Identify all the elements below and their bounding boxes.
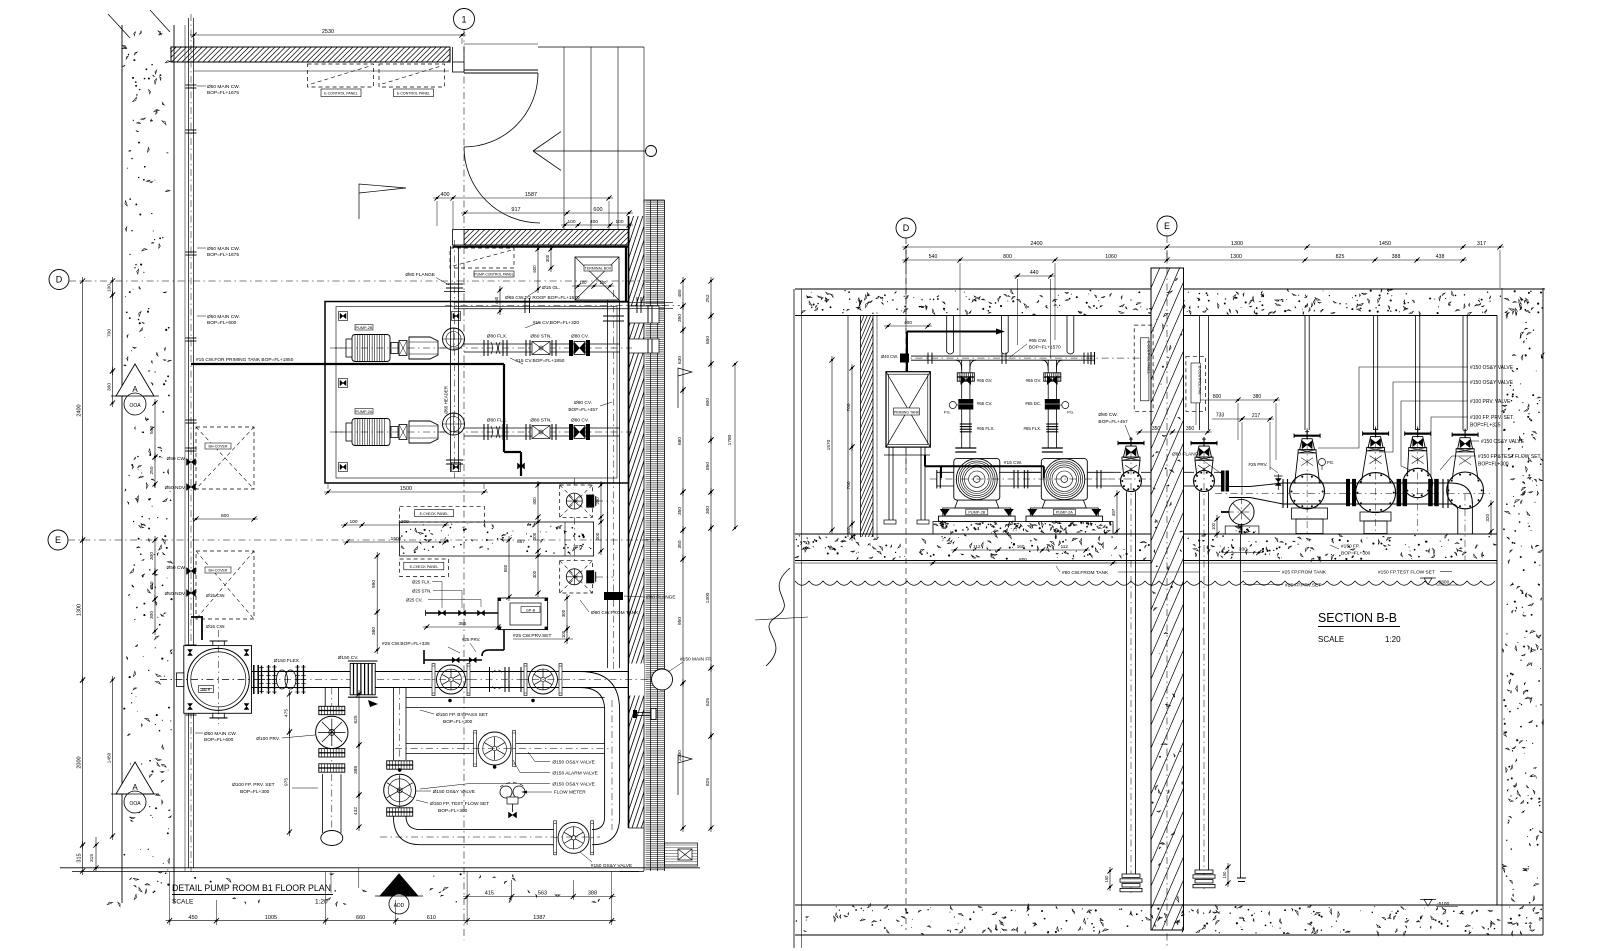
svg-text:BOP=FL+300: BOP=FL+300 [240,789,270,795]
svg-text:200: 200 [595,497,600,505]
pipe flange [186,644,197,646]
svg-text:#25 PRV.: #25 PRV. [462,637,480,642]
grid axis E sec [1157,216,1177,236]
flag marker 2 [678,755,692,795]
priming tank [886,372,930,447]
svg-text:Ø80 FLANGE: Ø80 FLANGE [405,272,435,278]
svg-text:388: 388 [1392,254,1401,260]
svg-text:#65 GV.: #65 GV. [1026,378,1042,383]
vertical right pipe [604,710,606,817]
svg-text:150: 150 [1104,875,1109,883]
dim 1570 [831,356,833,534]
svg-text:250: 250 [149,466,155,474]
left concrete wall [121,25,123,903]
sec valve assy 3 prv [1405,433,1431,435]
sec dim row1 [902,246,1504,248]
svg-text:Ø80 FLX.: Ø80 FLX. [487,334,508,340]
svg-text:400: 400 [590,219,598,225]
svg-text:800: 800 [1003,254,1012,260]
valve stack 1 [961,360,963,448]
ceiling pipe sleeve [946,316,948,353]
dim 800 380 [1192,399,1280,401]
svg-text:380: 380 [1253,394,1262,400]
svg-text:1005: 1005 [265,915,277,921]
svg-text:550: 550 [503,564,508,572]
svg-text:300: 300 [545,254,550,262]
svg-text:SCALE: SCALE [1318,635,1344,644]
level -5100 [1424,900,1432,907]
svg-text:200: 200 [595,532,600,540]
door arrow [533,132,561,151]
svg-text:480: 480 [677,289,683,297]
grid axis D sec [896,218,916,238]
svg-text:E: E [55,535,61,545]
svg-text:112: 112 [1061,544,1069,549]
svg-text:2530: 2530 [322,29,334,35]
plan flag pennant [359,184,406,219]
svg-text:E-CHECK PANEL: E-CHECK PANEL [410,565,439,569]
revision triangle A-OOA 1 [116,364,154,396]
svg-text:BOP=FL+1570: BOP=FL+1570 [1029,345,1061,351]
column marker m5 [452,312,461,321]
dim 100 drain [1216,515,1218,538]
svg-text:Ø50 MAIN CW.: Ø50 MAIN CW. [207,314,240,320]
pipe 50 CW riser [188,18,190,868]
sec bottom slab [795,904,1543,906]
svg-text:#65 FLX.: #65 FLX. [977,426,995,431]
svg-text:FLOW METER: FLOW METER [554,790,587,796]
pg gauge [1319,459,1326,466]
svg-text:Ø80 CV.: Ø80 CV. [571,334,589,340]
tank connection box 1 [560,485,593,517]
svg-text:E-CONTROL PAN: E-CONTROL PAN [1198,366,1202,395]
svg-text:450: 450 [188,915,197,921]
sec ceiling slab [795,288,1545,290]
dim 400 1587 [433,197,613,199]
revision triangle A-ADD [380,874,418,896]
svg-text:1587: 1587 [525,192,537,198]
svg-text:#15 CW.FOR PRIMING TANK BOP=FL: #15 CW.FOR PRIMING TANK BOP=FL+1850 [196,357,294,363]
sec dim row3 [1014,275,1055,277]
dim row mid [463,896,615,898]
svg-text:Ø150 CV.: Ø150 CV. [338,655,359,661]
dim 100 400 100 [561,224,633,226]
valve 50 NDV b [187,590,196,597]
svg-text:200: 200 [532,532,537,540]
svg-text:680: 680 [677,437,683,445]
riser 4 [1462,316,1464,431]
svg-text:E-CHECK PANEL: E-CHECK PANEL [420,512,449,516]
svg-text:100: 100 [561,630,566,638]
pump flange circle 1 [443,328,465,350]
svg-text:300: 300 [149,611,155,619]
svg-text:#15 CV.BOP=FL+320: #15 CV.BOP=FL+320 [533,320,580,326]
dim 733 217 [1238,418,1274,420]
svg-text:PUMP-2A: PUMP-2A [356,410,373,414]
svg-text:Ø25 STN.: Ø25 STN. [412,589,432,594]
drain pad [1225,526,1259,534]
tank conn pipes [573,518,575,561]
wall bottom lines [629,827,645,829]
svg-text:1:20: 1:20 [1385,635,1401,644]
suction flange plate [184,646,252,714]
svg-text:432: 432 [353,807,359,815]
drop pipe 2 end [1195,870,1213,873]
tank connection box 2 [560,561,593,593]
svg-text:1387: 1387 [533,915,545,921]
svg-text:PUMP-2B: PUMP-2B [968,511,985,515]
svg-text:E-CONTROL PANEL: E-CONTROL PANEL [1147,341,1151,374]
pump section P-2B [956,459,997,500]
svg-text:BOP=FL+600: BOP=FL+600 [204,737,234,743]
svg-text:917: 917 [511,207,520,213]
svg-text:PUMP-CONTROL PANEL: PUMP-CONTROL PANEL [474,273,513,277]
wall sleeve 2 [629,339,659,353]
ceiling pipe sleeve [1000,316,1002,353]
svg-text:E-CONTROL PANEL: E-CONTROL PANEL [397,92,431,96]
alarm valve 150 [478,732,511,765]
door swing arc 2 [464,147,540,223]
pump section P-2A [1044,459,1085,500]
svg-text:438: 438 [1436,254,1445,260]
E-check panel 2 [400,559,449,576]
flag marker 1 [678,368,692,408]
svg-text:540: 540 [929,254,938,260]
bottom manifold pipe [420,829,556,831]
svg-text:320: 320 [1485,513,1490,521]
svg-text:Ø15 CW.: Ø15 CW. [206,624,225,630]
dim 300 600 450 [550,245,552,272]
svg-text:Ø50 MAIN CW.: Ø50 MAIN CW. [204,731,237,737]
priming line 15CW [191,363,504,365]
interior wall [464,230,629,246]
pipe flange [186,337,197,339]
svg-text:1450: 1450 [106,752,112,763]
svg-text:388: 388 [353,766,359,774]
pump flange circle 2 [443,413,465,435]
bypass pipe [406,697,605,699]
butterfly valve 1 [437,665,466,694]
priming bold pipe [907,331,996,333]
sec wall strip [847,316,849,538]
grid axis D [49,270,69,290]
top wall dim 2530 [190,34,466,36]
svg-text:SECTION B-B: SECTION B-B [1318,611,1397,625]
prv flange bottom [319,749,345,753]
pipe flange [186,419,197,421]
grid axis 1 [454,9,475,30]
dim line left bottom [95,837,97,871]
valve centerlines [1306,428,1308,534]
sec manifold pipe [911,355,1094,357]
svg-text:BH-COVER: BH-COVER [209,569,228,573]
valve 50 CW b [187,568,196,575]
wall underside bold [453,246,629,248]
svg-text:Ø50 MAIN CW.: Ø50 MAIN CW. [207,246,240,252]
drop pipe 1 [1126,492,1128,875]
sec valve assy 2 alarm [1363,433,1389,435]
svg-text:#15 CW.: #15 CW. [1004,460,1022,466]
dim ext lines sec [959,263,961,356]
svg-text:2000: 2000 [76,756,82,768]
manifold flange [1083,353,1085,365]
svg-text:1300: 1300 [1230,254,1242,260]
reducer [1229,486,1250,488]
svg-text:400: 400 [440,192,449,198]
svg-text:OOA: OOA [129,801,141,807]
drain elbow circle [1229,499,1254,524]
svg-text:Ø80 CW.FROM TANK: Ø80 CW.FROM TANK [591,610,639,616]
svg-text:355: 355 [458,621,466,627]
svg-text:Ø50 MAIN CW.: Ø50 MAIN CW. [207,84,240,90]
svg-text:100: 100 [580,280,588,285]
svg-text:#150 MAIN FP.: #150 MAIN FP. [680,657,712,663]
right wall hatch [628,216,630,828]
svg-text:100: 100 [567,219,575,225]
dim 917 600 [461,212,633,214]
pump P-2B plan [352,335,390,362]
valve 150 OSY-2 [558,822,589,853]
drop pipe 2 [1199,492,1201,871]
svg-text:PG.: PG. [1327,460,1334,465]
svg-text:1: 1 [461,15,466,25]
svg-text:625: 625 [353,715,359,723]
E-control panel 1 [308,64,374,87]
valve2 outlet flange [1221,471,1225,492]
branch1 drop pipe [322,774,324,833]
svg-text:975: 975 [283,778,289,786]
fp drop pipe thin [1240,534,1242,878]
svg-text:#150 OS&Y VALVE: #150 OS&Y VALVE [1470,365,1514,371]
grid axis E [48,530,68,550]
svg-text:497: 497 [1111,508,1116,516]
svg-text:TERMINAL BOX: TERMINAL BOX [585,267,612,271]
svg-text:100: 100 [846,526,851,534]
sec E panel left [1134,325,1153,411]
sec main pipe [1283,482,1451,484]
svg-text:600: 600 [221,513,229,519]
svg-text:415: 415 [485,891,494,897]
svg-text:300: 300 [106,383,112,391]
branch1 pipe [324,688,326,708]
manifold flange [1001,353,1003,365]
valve 100 PRV [316,716,348,748]
svg-text:1500: 1500 [400,486,412,492]
butterfly valve 2 [529,665,558,694]
svg-text:1060: 1060 [1105,254,1117,260]
main fp pipe [252,671,629,673]
svg-text:BOP=FL+1675: BOP=FL+1675 [207,252,239,258]
svg-text:PG.: PG. [1067,410,1074,415]
svg-text:160: 160 [1017,544,1025,549]
svg-text:2400: 2400 [1030,241,1042,247]
left dim col outer [82,277,84,544]
osy flange top [387,761,413,765]
valve2 ceiling riser [1199,316,1201,431]
dim col 625 388 [358,690,360,749]
pump control panel box [450,248,514,268]
svg-text:D: D [56,275,63,285]
ceiling pipe sleeve [1066,316,1068,353]
top wall [171,47,450,62]
svg-text:BOP=FL+457: BOP=FL+457 [568,407,598,413]
valve 50 CW [187,459,196,466]
column marker m2 [339,379,348,388]
svg-text:BOP=FL+600: BOP=FL+600 [207,320,237,326]
svg-text:DETAIL PUMP ROOM B1 FLOOR: DETAIL PUMP ROOM B1 FLOOR PLAN [172,883,331,894]
right dim col 2 [710,277,712,320]
svg-text:400: 400 [904,320,912,326]
svg-text:BOP=FL+300: BOP=FL+300 [438,808,468,814]
svg-text:#150 FP.&TEST FLOW SET,: #150 FP.&TEST FLOW SET, [1478,454,1541,460]
plan bottom wall line [60,867,700,869]
main fp wall circle [652,669,673,690]
manifold tee elbows [956,360,962,370]
svg-text:Ø15 CW.: Ø15 CW. [206,593,225,599]
riser 3 [1415,316,1417,431]
svg-text:Ø150 OS&Y VALVE: Ø150 OS&Y VALVE [433,789,475,795]
svg-text:#100 PRV. VALVE: #100 PRV. VALVE [1470,399,1511,405]
trench dims [341,524,449,526]
svg-text:350: 350 [677,314,683,322]
E-control panel 2 [379,64,445,87]
svg-text:#65 DC.: #65 DC. [1025,401,1041,406]
manifold flange [927,353,929,365]
dim 350 350 [1136,431,1212,433]
svg-text:BOP=FL+457: BOP=FL+457 [1098,419,1128,425]
wall bolt detail [636,712,655,714]
svg-text:Ø150 FP. TEST FLOW SET: Ø150 FP. TEST FLOW SET [430,801,489,807]
svg-text:350: 350 [1186,426,1195,432]
wall underside line [194,70,449,72]
spool dashed [493,670,503,673]
svg-text:Ø150 OS&Y VALVE: Ø150 OS&Y VALVE [552,760,594,766]
svg-text:350: 350 [1152,426,1161,432]
main tee elbow down [580,672,620,711]
header riser pipe [450,246,452,472]
pipe flange e [1442,479,1444,508]
svg-text:#150 OS&Y VALVE: #150 OS&Y VALVE [1481,439,1525,445]
svg-text:Ø40 CW.: Ø40 CW. [881,354,898,359]
sec dim row2 [902,259,1467,261]
svg-text:Ø50 CW.: Ø50 CW. [167,456,186,462]
cable trench [400,522,594,556]
svg-text:-5100: -5100 [1437,901,1450,907]
dim 600 bh [192,518,258,520]
svg-text:700: 700 [846,403,852,411]
svg-text:600: 600 [593,207,602,213]
dims right tank boxes [600,481,602,521]
svg-text:450: 450 [494,296,499,304]
dim 355 [423,626,502,628]
tank stand [888,447,890,524]
svg-text:#25 CW.PRV.SET: #25 CW.PRV.SET [513,633,551,639]
pipe flange [186,251,197,253]
column marker m1 [339,312,348,321]
svg-text:BOP=FL+300: BOP=FL+300 [443,719,473,725]
left dim col sub [154,399,156,461]
pipe flange a [1282,479,1284,508]
svg-text:Ø100 FP. PRV. SET: Ø100 FP. PRV. SET [232,782,275,788]
svg-text:Ø150 FLEX.: Ø150 FLEX. [274,658,300,664]
svg-text:2400: 2400 [76,404,82,416]
leader circle [646,146,657,157]
pump discharge stub [1087,471,1114,473]
dim row bottom [166,920,616,922]
svg-text:#25 PRV.: #25 PRV. [1248,462,1267,467]
svg-text:Ø80 STN.: Ø80 STN. [530,418,551,424]
svg-text:100: 100 [1211,522,1216,530]
svg-text:100: 100 [106,284,112,292]
dim 150 pipe1 [1109,867,1111,891]
E axis over column [1166,268,1168,930]
pump room enclosure [325,302,629,484]
svg-text:#15 CV.BOP=FL+1850: #15 CV.BOP=FL+1850 [516,358,565,364]
svg-text:PUMP-2A: PUMP-2A [1056,511,1073,515]
svg-text:315: 315 [76,853,82,862]
svg-text:Ø25 FLX.: Ø25 FLX. [412,580,431,585]
valve supports [1292,508,1328,519]
svg-text:OOA: OOA [129,403,141,409]
column marker m3 [339,463,348,472]
pipe 25 down [503,630,505,650]
break line squiggle [766,568,790,666]
svg-text:650: 650 [705,336,711,344]
15cw drain elbow [191,616,203,618]
svg-text:380: 380 [371,627,377,635]
svg-text:SCALE: SCALE [172,899,194,906]
riser 1 [1304,316,1306,431]
level -2800 [1424,578,1432,585]
svg-text:1300: 1300 [1231,241,1243,247]
dim 112 160 112 [951,549,1090,551]
svg-text:700: 700 [106,329,112,337]
valve 50 NDV [187,484,196,491]
svg-text:Ø15 GL.: Ø15 GL. [542,285,560,291]
discharge piping pump2 [464,427,620,429]
svg-text:Ø100 PRV.: Ø100 PRV. [256,736,280,742]
pipe flange d dark [1428,479,1433,506]
svg-text:800: 800 [705,398,711,406]
svg-text:300: 300 [1239,547,1247,553]
svg-text:625: 625 [705,698,711,706]
branch2 pipe [392,688,394,761]
dim 1500 room [324,491,488,493]
svg-text:Ø50 CW.: Ø50 CW. [167,565,186,571]
sec column [1151,268,1184,930]
sec right wall [1496,316,1498,906]
pipe flange [186,129,197,131]
svg-text:Ø150 OS&Y VALVE: Ø150 OS&Y VALVE [552,782,594,788]
right wall bottom step [665,843,698,866]
svg-text:388: 388 [588,891,597,897]
svg-text:#65 GV.: #65 GV. [977,378,993,383]
svg-text:252: 252 [705,294,711,302]
svg-text:1450: 1450 [1379,241,1391,247]
svg-text:#150 FP.: #150 FP. [1341,544,1360,550]
svg-text:100: 100 [600,280,608,285]
svg-text:660: 660 [356,915,365,921]
end elbow down [1451,483,1472,504]
svg-text:300: 300 [149,552,155,560]
svg-text:440: 440 [1030,270,1039,276]
sec floor support line [1289,533,1497,535]
dim 320 [1490,500,1492,536]
pipe flange [186,711,197,713]
svg-text:1300: 1300 [705,592,711,603]
water line [795,581,1495,585]
wall sleeve 1 [629,306,659,323]
